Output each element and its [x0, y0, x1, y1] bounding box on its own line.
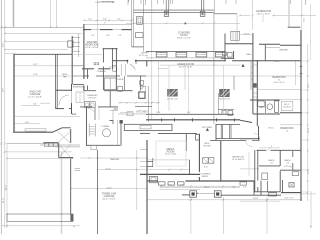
svg-text:34'-0" x 23'-0": 34'-0" x 23'-0" [102, 199, 116, 201]
svg-text:HALL: HALL [246, 53, 252, 56]
svg-text:M.BATH: M.BATH [97, 70, 106, 73]
svg-text:11-0 x 11-0: 11-0 x 11-0 [274, 82, 286, 84]
svg-text:19'-0": 19'-0" [25, 122, 30, 124]
svg-text:GAMEROOM: GAMEROOM [256, 10, 271, 13]
svg-text:8": 8" [197, 193, 199, 195]
svg-text:4'-0" 5'-2": 4'-0" 5'-2" [284, 198, 294, 200]
svg-text:24'-8": 24'-8" [3, 87, 5, 92]
svg-text:5'-0" clg: 5'-0" clg [284, 166, 293, 168]
svg-text:TANDEM: TANDEM [110, 158, 119, 161]
svg-text:21'-8": 21'-8" [33, 74, 38, 76]
svg-text:24'-0": 24'-0" [106, 187, 112, 189]
svg-text:UTILITY: UTILITY [88, 98, 97, 100]
svg-text:12'-0": 12'-0" [3, 197, 5, 203]
svg-text:12'-0" clg: 12'-0" clg [139, 55, 149, 57]
svg-text:14'-0" x 16'-0": 14'-0" x 16'-0" [85, 47, 99, 49]
svg-text:8'-4": 8'-4" [33, 104, 37, 106]
svg-text:34'-0": 34'-0" [274, 61, 280, 63]
svg-text:6-0x5-0: 6-0x5-0 [283, 106, 291, 108]
svg-text:5'-4": 5'-4" [91, 35, 95, 37]
svg-text:34'-8": 34'-8" [3, 42, 5, 47]
svg-text:5'-4": 5'-4" [88, 19, 92, 21]
svg-text:9'-0": 9'-0" [187, 112, 191, 114]
svg-text:6'-8": 6'-8" [103, 19, 107, 21]
svg-text:11'-0": 11'-0" [308, 169, 310, 174]
svg-text:12'-2": 12'-2" [33, 64, 38, 66]
svg-text:7'-4": 7'-4" [180, 185, 184, 187]
svg-text:15'-0": 15'-0" [244, 33, 250, 35]
svg-text:PWDR: PWDR [117, 79, 124, 81]
svg-text:W.I.C.: W.I.C. [268, 128, 274, 130]
svg-text:19'-0": 19'-0" [304, 17, 306, 22]
svg-text:29'-0": 29'-0" [204, 187, 210, 189]
svg-text:BEDRM: BEDRM [280, 49, 288, 51]
svg-text:KITCHEN: KITCHEN [137, 111, 148, 114]
svg-text:BEDROOM: BEDROOM [273, 76, 286, 79]
svg-text:5'-4": 5'-4" [118, 35, 122, 37]
svg-text:16x16 COL: 16x16 COL [219, 99, 231, 101]
svg-text:12'-2" x 24'-8": 12'-2" x 24'-8" [28, 97, 42, 99]
svg-text:6'-8": 6'-8" [106, 35, 110, 37]
svg-text:14'-0": 14'-0" [308, 127, 310, 133]
svg-text:22'-0" x 19'-8": 22'-0" x 19'-8" [179, 66, 193, 68]
svg-text:7'-4": 7'-4" [168, 185, 172, 187]
svg-text:23'-0": 23'-0" [6, 184, 8, 190]
svg-text:21'-0": 21'-0" [105, 168, 111, 170]
svg-text:34'-0" x 12'-0": 34'-0" x 12'-0" [177, 38, 191, 40]
svg-text:DINING: DINING [102, 126, 110, 128]
svg-text:PATIO: PATIO [202, 175, 209, 178]
svg-text:6'-2": 6'-2" [243, 186, 247, 188]
svg-text:ENTRY: ENTRY [141, 53, 149, 55]
svg-text:8'-0": 8'-0" [72, 114, 77, 116]
svg-text:15'-0" x 19'-0": 15'-0" x 19'-0" [257, 14, 271, 16]
svg-text:5'-0": 5'-0" [204, 167, 209, 169]
svg-text:19'-8": 19'-8" [308, 83, 310, 88]
svg-text:14'-0": 14'-0" [253, 198, 259, 200]
svg-text:5'-4": 5'-4" [117, 19, 121, 21]
svg-text:#3 11-6x11-0: #3 11-6x11-0 [232, 159, 245, 161]
svg-text:ROOM: ROOM [204, 145, 211, 147]
svg-text:5'-0": 5'-0" [232, 186, 236, 188]
svg-text:RM: RM [63, 76, 67, 78]
svg-text:13-0 x 12-6: 13-0 x 12-6 [165, 154, 177, 156]
svg-text:12'-4": 12'-4" [156, 112, 161, 114]
